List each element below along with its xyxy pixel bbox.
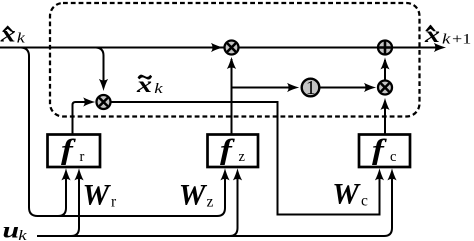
- svg-text:c: c: [390, 149, 396, 165]
- svg-text:k: k: [154, 80, 163, 97]
- svg-text:+1: +1: [452, 30, 471, 47]
- svg-text:z: z: [207, 194, 214, 211]
- svg-text:W: W: [83, 179, 112, 212]
- svg-text:c: c: [361, 193, 368, 210]
- svg-text:x: x: [424, 21, 440, 47]
- svg-text:r: r: [80, 149, 85, 165]
- svg-text:W: W: [332, 178, 361, 211]
- svg-text:W: W: [179, 179, 208, 212]
- svg-text:x: x: [136, 71, 152, 97]
- svg-text:k: k: [442, 30, 451, 47]
- svg-text:u: u: [3, 217, 20, 241]
- svg-text:r: r: [111, 194, 117, 211]
- svg-text:z: z: [239, 149, 246, 165]
- svg-text:k: k: [18, 227, 27, 241]
- svg-text:k: k: [17, 29, 26, 46]
- svg-text:1: 1: [306, 78, 316, 99]
- svg-text:x: x: [0, 21, 16, 47]
